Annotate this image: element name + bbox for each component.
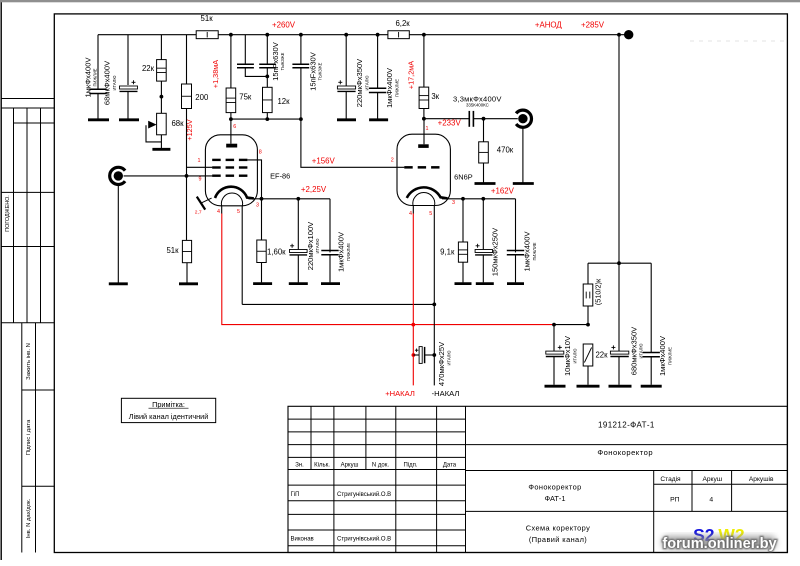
ground: [513, 182, 534, 185]
faint dotted line: [690, 40, 786, 42]
svg-text:(510/2)к: (510/2)к: [594, 278, 603, 305]
svg-text:1мкФх400V: 1мкФх400V: [385, 67, 394, 108]
node rail right: [299, 117, 303, 121]
node heater black cap tap: [432, 353, 436, 357]
node bus 15nF-C: [299, 33, 303, 37]
wire 200 top: [186, 35, 188, 84]
wire cap C2 top: [127, 35, 129, 85]
resistor 9,1к cathode: [458, 242, 467, 262]
node heater red junction: [411, 323, 415, 327]
tube 6N6P anode bar: [418, 144, 429, 148]
wire 220uF350 drop: [345, 35, 347, 87]
ground: [475, 182, 496, 185]
ground: [321, 282, 340, 285]
wire EF-86 pin4 stub: [221, 206, 223, 214]
svg-text:+285V: +285V: [581, 20, 605, 29]
wire coupling cap to output: [473, 118, 517, 120]
node caps join: [265, 75, 269, 79]
wire 68k bottom: [160, 135, 162, 149]
left margin divider: [1, 98, 54, 100]
svg-text:3: 3: [256, 203, 259, 209]
svg-text:51к: 51к: [166, 246, 179, 255]
wire 220uF100 drop: [297, 199, 299, 251]
svg-text:Фонокоректор: Фонокоректор: [597, 448, 653, 457]
svg-text:ТЬЖЗЖЕ: ТЬЖЗЖЕ: [280, 52, 285, 70]
wire heater black down: [433, 304, 435, 385]
resistor 12к: [263, 87, 273, 112]
node anode rail left: [229, 117, 233, 121]
ground: [119, 118, 139, 121]
svg-text:РП: РП: [670, 497, 680, 504]
svg-text:ГіП: ГіП: [291, 492, 300, 498]
ground: [289, 282, 308, 285]
svg-text:ПИЖЛИЕ: ПИЖЛИЕ: [93, 68, 98, 86]
svg-text:+162V: +162V: [491, 187, 515, 196]
resistor (510/2)к: [583, 284, 593, 306]
ground: [109, 282, 128, 285]
capacitor 1мкФх400V D: [507, 250, 524, 252]
capacitor 10мкФх10V electrolytic: [546, 351, 564, 354]
svg-text:+1,38мА: +1,38мА: [211, 60, 220, 88]
svg-text:+233V: +233V: [438, 118, 462, 127]
capacitor 1мкФх400V E: [643, 352, 660, 354]
wire 22k psu gnd: [587, 366, 589, 385]
svg-text:335К400КС: 335К400КС: [466, 103, 489, 108]
svg-text:+НАКАЛ: +НАКАЛ: [385, 389, 415, 398]
resistor 6,2к series bus: [388, 31, 409, 39]
svg-text:Підпис і дата: Підпис і дата: [26, 419, 32, 455]
svg-text:Лівий канал ідентичний: Лівий канал ідентичний: [129, 412, 209, 421]
page top edge strip: [0, 0, 800, 2]
svg-text:1мкФх400V: 1мкФх400V: [523, 231, 532, 272]
wire 22k top: [160, 35, 162, 60]
svg-text:200: 200: [195, 93, 209, 102]
title block outline: [288, 406, 787, 552]
svg-text:(Правий канал): (Правий канал): [529, 535, 587, 544]
node bus 3k: [422, 33, 426, 37]
ground: [179, 282, 198, 285]
resistor 75к: [226, 88, 236, 113]
svg-text:Дата: Дата: [443, 463, 457, 469]
resistor 1,60к cathode: [257, 240, 266, 263]
wire 6N6P anode lead: [423, 119, 425, 145]
svg-text:Схема коректору: Схема коректору: [526, 524, 590, 533]
node cathode/pin8: [260, 197, 264, 201]
svg-text:2: 2: [391, 158, 394, 164]
svg-text:75к: 75к: [239, 93, 252, 102]
wire cap C1 top: [97, 35, 99, 89]
resistor 51к series bus: [196, 31, 218, 39]
svg-text:Фонокоректор: Фонокоректор: [528, 483, 581, 492]
svg-text:Стригунівський.О.В: Стригунівський.О.В: [337, 536, 391, 543]
wire 220uF100 gnd: [297, 255, 299, 282]
title block right part lines: [466, 444, 788, 446]
svg-text:191212-ФАТ-1: 191212-ФАТ-1: [598, 421, 655, 430]
wire 10uF gnd: [553, 357, 555, 385]
svg-text:220мкФх350V: 220мкФх350V: [355, 58, 364, 107]
wire 3k to anode node: [423, 109, 425, 119]
svg-text:1мкФх400V: 1мкФх400V: [83, 57, 92, 98]
svg-text:Аркуш: Аркуш: [341, 463, 359, 469]
svg-text:4: 4: [217, 209, 220, 215]
svg-text:Примітка:: Примітка:: [152, 400, 185, 409]
svg-text:680мкФх350V: 680мкФх350V: [629, 326, 638, 375]
svg-text:Кільк.: Кільк.: [314, 463, 330, 469]
svg-text:+АНОД: +АНОД: [535, 20, 563, 29]
terminal +285V: [624, 30, 633, 39]
svg-text:-НАКАЛ: -НАКАЛ: [432, 389, 460, 398]
svg-text:ПИЖЛИЕ: ПИЖЛИЕ: [346, 243, 351, 261]
wire 68k wiper loop: [146, 125, 161, 142]
page left border: [0, 2, 2, 560]
svg-text:15пFх630V: 15пFх630V: [308, 51, 317, 91]
svg-text:1,60к: 1,60к: [267, 248, 286, 257]
wire 1uF400-B gnd: [377, 93, 379, 120]
svg-text:10мкФх10V: 10мкФх10V: [563, 335, 572, 376]
wire 150uF gnd: [482, 255, 484, 282]
svg-text:5: 5: [237, 209, 240, 215]
wire anode rail: [231, 118, 301, 120]
wire 6N6P pin4 stub: [412, 205, 414, 213]
svg-text:1: 1: [426, 126, 429, 132]
svg-text:22к: 22к: [142, 64, 155, 73]
svg-text:Підп.: Підп.: [403, 463, 417, 469]
wire 15nF-A drop: [244, 35, 246, 64]
wire 15nF-A bottom: [245, 68, 267, 77]
wire 15nF-B to 12k: [266, 68, 268, 88]
wire 9.1k gnd: [462, 262, 464, 282]
tube EF-86 anode bar: [226, 144, 237, 148]
wire 15nF-C drop: [300, 35, 302, 64]
svg-text:+125V: +125V: [185, 119, 194, 140]
wire 12k bottom: [266, 113, 268, 120]
capacitor 1мкФх400V B: [369, 87, 386, 89]
svg-text:Аркушів: Аркушів: [749, 475, 774, 483]
svg-text:8: 8: [259, 150, 262, 156]
wire cathode line 6N6P: [442, 198, 516, 200]
svg-text:4: 4: [709, 497, 713, 504]
wire 75k top: [230, 35, 232, 88]
wire input jack to tube: [124, 175, 187, 177]
node bus 1uF400-B: [376, 33, 380, 37]
wire 1.6k gnd: [261, 263, 263, 283]
svg-text:9,1к: 9,1к: [440, 248, 455, 257]
capacitor 68мкФх400V electrolytic: [120, 86, 138, 89]
left margin lower table: [21, 323, 23, 553]
left margin upper table: [1, 107, 54, 109]
ground: [88, 118, 109, 121]
svg-text:15пFх630V: 15пFх630V: [271, 41, 280, 81]
node 220uF100 branch: [296, 197, 300, 201]
ground: [545, 385, 566, 388]
tube 6N6P envelope: [397, 134, 450, 205]
ground: [152, 148, 170, 151]
pins 2,7 marker slash: [197, 197, 205, 210]
node bus 220uF350: [344, 33, 348, 37]
tube EF-86 cathode arc: [215, 187, 254, 199]
svg-text:220мкФх100V: 220мкФх100V: [306, 221, 315, 270]
wire 15nF-C bottom: [300, 68, 302, 119]
svg-text:ИТАЛЮ: ИТАЛЮ: [112, 76, 117, 91]
wire 1uF400-E drop: [650, 263, 652, 352]
ground: [337, 118, 356, 121]
svg-text:Зажить інв. N: Зажить інв. N: [26, 343, 32, 380]
node 470k: [482, 117, 486, 121]
resistor 3к: [419, 87, 429, 108]
svg-text:forum.onliner.by: forum.onliner.by: [662, 536, 777, 552]
title block left columns: [288, 418, 466, 420]
wire 15nF-B drop: [266, 35, 268, 64]
tube EF-86 bottom dimple: [221, 193, 242, 206]
wire 1uF400-C corner: [329, 199, 331, 253]
svg-text:2,7: 2,7: [195, 209, 202, 215]
svg-text:Виконав: Виконав: [291, 537, 314, 543]
capacitor 1мкФх400V C: [321, 250, 338, 252]
svg-text:ИТАЛЮ: ИТАЛЮ: [446, 351, 451, 366]
wire heater black line: [242, 303, 434, 305]
wire 22k to 68k: [160, 81, 162, 113]
svg-text:ПИЖЛИЕ: ПИЖЛИЕ: [532, 242, 537, 260]
svg-text:6: 6: [233, 124, 236, 130]
svg-text:Стадія: Стадія: [660, 475, 681, 483]
wire jack ground drop: [117, 185, 119, 282]
svg-text:Аркуш: Аркуш: [702, 476, 722, 483]
capacitor 15пFх630V C: [292, 63, 309, 65]
resistor 22к divider: [157, 60, 167, 82]
svg-text:150мкФх250V: 150мкФх250V: [490, 227, 499, 276]
ground: [641, 385, 662, 388]
wire cathode line EF-86: [249, 198, 331, 200]
wire 6N6P pin5 drop: [433, 206, 435, 305]
node bus 75k: [229, 33, 233, 37]
wire 1uF400-D gnd: [515, 255, 517, 283]
svg-text:6,2к: 6,2к: [395, 19, 410, 28]
capacitor 15пFх630V B: [259, 63, 276, 65]
wire 1uF400-E gnd: [650, 357, 652, 385]
node heater red cap tap: [412, 353, 416, 357]
svg-text:EF-86: EF-86: [270, 171, 290, 180]
node PSU tee: [617, 261, 621, 265]
resistor 200: [182, 84, 192, 109]
capacitor 15пFх630V A: [237, 63, 254, 65]
wire 680uF drop: [618, 263, 620, 352]
node 150uF: [481, 197, 485, 201]
svg-text:ИТАЛЮ: ИТАЛЮ: [572, 349, 577, 364]
wire heater red 6N6P drop: [412, 214, 414, 386]
tube EF-86 grid dashes: [212, 159, 221, 161]
svg-text:5: 5: [429, 211, 432, 217]
capacitor 3,3мкФх400V coupling: [468, 111, 470, 127]
wire 510/2k bottom: [587, 306, 589, 325]
wire 200 down to grid node: [186, 109, 188, 242]
wire 680uF gnd: [618, 357, 620, 385]
svg-text:12к: 12к: [277, 97, 290, 106]
svg-text:6N6P: 6N6P: [454, 173, 473, 182]
node heater black junction: [432, 303, 436, 307]
ground: [507, 282, 524, 285]
wire G1 branch: [187, 166, 213, 168]
wire output jack ground: [522, 128, 524, 183]
tube 6N6P bottom dimple: [413, 193, 435, 206]
wire top B+ bus right segment: [409, 34, 626, 36]
capacitor 680мкФх350V electrolytic: [610, 351, 628, 354]
wire 3k drop: [423, 35, 425, 87]
wire 510/2k top: [587, 263, 589, 284]
svg-text:1: 1: [198, 158, 201, 164]
svg-text:68к: 68к: [171, 119, 184, 128]
capacitor 470мкФх25V heater: [413, 354, 419, 356]
svg-text:+260V: +260V: [272, 20, 296, 29]
wire 75k to tube anode: [230, 113, 232, 144]
resistor 470к: [479, 142, 489, 163]
tube 6N6P grid dashes: [404, 166, 412, 169]
ground: [609, 385, 632, 388]
svg-text:Інв. N дах/док.: Інв. N дах/док.: [26, 498, 32, 538]
wire PSU horizontal: [588, 262, 651, 264]
wire pin8 link: [247, 160, 261, 199]
ground: [253, 282, 272, 285]
svg-text:ФАТ-1: ФАТ-1: [545, 494, 566, 503]
tube 6N6P cathode arc: [407, 187, 448, 198]
wire 470k drop: [483, 119, 485, 142]
svg-text:ИТАЛЮ: ИТАЛЮ: [364, 76, 369, 91]
tube EF-86 envelope: [205, 135, 257, 206]
ground: [577, 385, 600, 388]
wire 1.6k drop: [261, 199, 263, 240]
node anode 6N6P: [422, 117, 426, 121]
svg-text:ТЬЖЗЖЕ: ТЬЖЗЖЕ: [318, 62, 323, 80]
node bus 15nF-B: [265, 33, 269, 37]
wire top B+ bus middle segment: [218, 34, 388, 36]
svg-text:9: 9: [199, 176, 202, 182]
note box Примітка: [121, 398, 215, 422]
wire 150uF drop: [482, 199, 484, 251]
svg-text:Стригунівський.О.В: Стригунівський.О.В: [337, 491, 391, 498]
wire PSU vertical: [618, 35, 620, 264]
svg-text:N док.: N док.: [372, 463, 389, 469]
svg-text:68мкФх400V: 68мкФх400V: [103, 60, 112, 105]
node 10uF tap: [552, 323, 556, 327]
wire EF-86 pin5 drop: [241, 206, 243, 305]
capacitor 220мкФх350V electrolytic: [337, 86, 355, 89]
capacitor 150мкФх250V electrolytic: [475, 250, 492, 253]
svg-text:+17,2мА: +17,2мА: [406, 61, 415, 89]
input jack: [110, 167, 125, 184]
wire cap C1 bottom: [97, 94, 99, 120]
svg-text:470к: 470к: [497, 146, 514, 155]
node heater tap: [586, 323, 590, 327]
svg-text:22к: 22к: [595, 351, 608, 360]
svg-text:1мкФх400V: 1мкФх400V: [658, 335, 667, 376]
svg-text:+2,25V: +2,25V: [301, 185, 327, 194]
wire 220uF350 gnd: [345, 92, 347, 120]
node grid/input: [185, 174, 189, 178]
capacitor 1мкФх400V input-rail: [89, 88, 106, 90]
svg-text:ИТАЛЮ: ИТАЛЮ: [315, 239, 320, 254]
svg-text:+156V: +156V: [312, 157, 336, 166]
svg-text:ПОГОДЖЕНО.: ПОГОДЖЕНО.: [5, 195, 11, 232]
svg-text:51к: 51к: [201, 14, 214, 23]
wire 1uF400-B drop: [377, 35, 379, 88]
potentiometer 68к: [157, 113, 167, 135]
wire 470k gnd: [483, 163, 485, 183]
wire 1uF400-D corner: [515, 199, 517, 253]
node 9.1k: [461, 197, 465, 201]
wire heater black segment: [554, 324, 588, 326]
node rail 12k: [265, 117, 269, 121]
svg-text:4: 4: [409, 211, 412, 217]
svg-text:3: 3: [452, 200, 455, 206]
svg-text:ПИЖЛИЕ: ПИЖЛИЕ: [667, 347, 672, 365]
ground: [476, 282, 494, 285]
output jack: [516, 110, 531, 127]
svg-text:1мкФх400V: 1мкФх400V: [337, 231, 346, 272]
resistor 22к heater pot: [583, 344, 593, 366]
wire 1uF400-C gnd: [329, 255, 331, 283]
node 22k/68k: [160, 95, 164, 99]
ground: [369, 118, 388, 121]
capacitor 220мкФх100V electrolytic: [290, 250, 308, 253]
wire rail to 6N6P grid: [301, 119, 405, 167]
svg-text:ПИЖЛИЕ: ПИЖЛИЕ: [394, 79, 399, 97]
ground: [455, 282, 472, 285]
wire cap C2 bottom: [127, 92, 129, 120]
resistor 51к grid leak: [182, 240, 191, 262]
svg-text:Зн.: Зн.: [295, 463, 304, 469]
wire 51k to ground: [186, 263, 188, 283]
wire 9.1k drop: [462, 199, 464, 242]
svg-text:3к: 3к: [431, 92, 439, 101]
svg-text:470мкФх25V: 470мкФх25V: [437, 341, 446, 386]
wire top B+ bus left segment: [98, 34, 196, 36]
node bus PSU drop: [617, 33, 621, 37]
wire anode node to coupling cap: [424, 118, 469, 120]
wire 10uF drop: [553, 325, 555, 352]
wire heater red EF-86: [222, 214, 554, 325]
